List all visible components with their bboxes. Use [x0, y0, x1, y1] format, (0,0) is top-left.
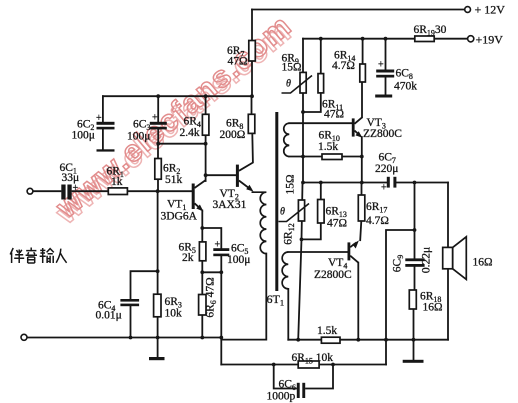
svg-text:3DG6A: 3DG6A [161, 211, 198, 223]
wire 6R6 column [201, 272, 203, 337]
svg-text:2.4k: 2.4k [180, 127, 200, 139]
svg-text:+: + [152, 113, 158, 124]
svg-text:100μ: 100μ [127, 131, 150, 143]
watermark www.elecfans.com [46, 8, 301, 231]
svg-text:100μ: 100μ [72, 130, 95, 142]
capacitor 6C7 [387, 177, 397, 188]
wire ground stub right [413, 340, 415, 360]
coil primary 6T1 [252, 192, 267, 254]
wire input row [33, 190, 192, 192]
thermistor 6R9 body [300, 72, 306, 93]
resistor 6R14 [360, 64, 366, 82]
svg-text:1.5k: 1.5k [318, 141, 338, 153]
thermistor 6R9 arrow [282, 76, 313, 94]
terminal input top [27, 188, 33, 194]
wire VT3 emitter column [361, 137, 363, 183]
resistor 6R10 [322, 154, 342, 160]
wire thermistor column upper x303 [302, 39, 304, 183]
wire x386 column [386, 230, 415, 365]
wire thermistor column lower [298, 183, 302, 340]
resistor 6R11 [318, 74, 324, 93]
resistor 6R15 [298, 361, 319, 368]
svg-text:1000p: 1000p [267, 391, 296, 403]
wire base column x157 down [157, 191, 159, 337]
wire 6C3 to 6R4 [158, 143, 205, 145]
label 伴音输入 (hand-drawn strokes) [10, 248, 66, 264]
wire VT3 collector column [361, 39, 364, 118]
transistor VT2 [236, 163, 254, 192]
wire +19V rail [303, 38, 468, 40]
svg-text:+: + [381, 183, 387, 194]
svg-text:200Ω: 200Ω [220, 129, 246, 141]
wire x221 column [220, 272, 222, 364]
wire rail B y96 [103, 95, 252, 97]
resistor 6R1 [108, 188, 127, 195]
transistor VT1 [192, 180, 206, 212]
resistors vertical [108, 36, 434, 368]
capacitor 6C3 [150, 122, 167, 130]
char 入 [56, 249, 66, 263]
svg-text:θ: θ [280, 207, 285, 218]
svg-text:ZZ800C: ZZ800C [363, 128, 402, 140]
wire rail y340 [288, 339, 448, 341]
svg-text:100μ: 100μ [227, 254, 250, 266]
capacitor 6C6 [297, 383, 305, 398]
wire VT1 emitter column [201, 211, 203, 273]
svg-text:470k: 470k [394, 81, 417, 93]
resistor 6R6 [199, 295, 206, 316]
terminal input bottom [21, 334, 27, 340]
svg-text:3AX31: 3AX31 [213, 199, 247, 211]
transistor VT4 [348, 240, 359, 262]
svg-text:6R6 47Ω: 6R6 47Ω [205, 277, 219, 317]
thermistor 6R12 body [298, 200, 304, 221]
capacitor 6C9 [405, 258, 424, 266]
wire 6R7 column [251, 10, 253, 97]
svg-text:10k: 10k [165, 308, 183, 320]
svg-text:16Ω: 16Ω [473, 257, 493, 269]
resistor 1.5k [321, 337, 340, 343]
wire 6R10 row [289, 156, 362, 158]
svg-text:47Ω: 47Ω [327, 218, 347, 230]
wire 6R2 column [157, 144, 159, 192]
wire bottom rail [27, 337, 221, 339]
svg-text:2k: 2k [182, 252, 194, 264]
wire 6C4 branch [131, 271, 158, 337]
svg-text:+: + [96, 113, 102, 124]
svg-text:47Ω: 47Ω [324, 109, 344, 121]
speaker [443, 237, 467, 280]
wire 6R13 leads [302, 183, 321, 240]
wire transformer bottom link [221, 254, 266, 340]
terminal +12V [465, 7, 471, 13]
resistor 6R4 [202, 114, 209, 135]
resistor 6R7 [249, 41, 256, 62]
svg-text:+: + [73, 183, 79, 194]
char 音 [26, 248, 37, 264]
capacitor 6C1 [61, 185, 71, 200]
wire lower winding bottom column [287, 289, 289, 340]
coil secondary upper [284, 123, 290, 156]
wire x206 column [205, 96, 207, 181]
wire ground stub left [157, 338, 159, 358]
svg-text:1k: 1k [111, 176, 123, 188]
svg-text:220μ: 220μ [375, 163, 398, 175]
svg-text:15Ω: 15Ω [285, 174, 297, 194]
wire speaker column [447, 183, 449, 340]
wire VT2 base [206, 174, 236, 176]
svg-text:+: + [378, 60, 384, 71]
wire upper winding top to VT3 base [289, 122, 352, 124]
wire +12V rail [252, 9, 465, 11]
capacitor 6C8 [375, 70, 394, 98]
svg-text:4.7Ω: 4.7Ω [332, 60, 355, 72]
capacitor 6C5 [213, 248, 229, 256]
resistor 6R13 [318, 200, 325, 224]
coil secondary lower [282, 252, 288, 289]
svg-text:47Ω: 47Ω [228, 56, 248, 68]
transistor VT3 [352, 117, 363, 138]
svg-text:0.01μ: 0.01μ [96, 310, 122, 322]
resistor 6R5 [199, 242, 206, 261]
ground left [149, 357, 165, 360]
svg-text:Z2800C: Z2800C [314, 269, 352, 281]
wire rail y364 [221, 364, 386, 366]
wire 6C8 column [385, 39, 387, 95]
svg-text:4.7Ω: 4.7Ω [366, 215, 389, 227]
resistor 6R2 [155, 159, 162, 180]
wire 6C9/6R18 column [414, 183, 415, 340]
wire 6R17 leads [360, 183, 361, 241]
wire 6R11 leads [303, 39, 321, 112]
svg-text:15Ω: 15Ω [282, 62, 302, 74]
resistor 6R19 [415, 36, 434, 42]
capacitor 6C4 [120, 299, 139, 306]
char 输 [40, 248, 54, 263]
svg-text:16Ω: 16Ω [423, 302, 443, 314]
svg-text:+: + [215, 240, 221, 251]
resistor 6R18 [409, 290, 416, 309]
wire 6R5/6C5 top [202, 228, 221, 272]
wire 6R5/6C5 bottom [202, 271, 221, 273]
wire 6C3 column [157, 96, 159, 144]
svg-text:1.5k: 1.5k [317, 325, 337, 337]
svg-text:θ: θ [286, 79, 291, 90]
capacitor 6C2 [97, 122, 115, 152]
resistor 6R8 [248, 114, 255, 133]
wire output row y182.5 [303, 182, 448, 184]
svg-text:0.22μ: 0.22μ [421, 247, 433, 273]
wire VT4 base row [288, 251, 347, 253]
svg-text:6R15 10k: 6R15 10k [292, 352, 334, 366]
ground right [403, 360, 424, 363]
transformer core [275, 112, 278, 291]
char 伴 [10, 248, 24, 263]
svg-text:+ 12V: + 12V [475, 3, 506, 17]
resistor 6R17 [358, 195, 365, 221]
svg-text:+19V: +19V [476, 33, 504, 47]
terminal +19V [468, 36, 474, 42]
wire 6R8 to VT2 collector [252, 96, 253, 162]
thermistor 6R12 arrow [279, 204, 310, 222]
wire 6C2 column [102, 96, 104, 150]
wire VT4 collector column [357, 263, 359, 340]
wire 6C6 loop [274, 365, 333, 389]
resistor 6R3 [154, 294, 161, 317]
svg-text:51k: 51k [165, 174, 183, 186]
